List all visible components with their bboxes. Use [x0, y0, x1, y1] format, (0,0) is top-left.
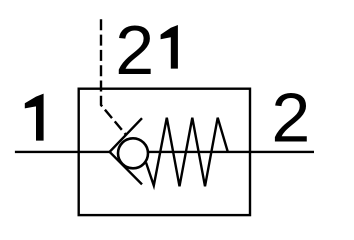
wire: flow line port 1 (left segment to seat apex) [15, 151, 111, 153]
spring [146, 118, 228, 187]
pilot line 21 (dashed) [101, 19, 126, 135]
wire: flow line port 2 (right segment through spring) [130, 151, 314, 153]
label 1 [25, 94, 44, 141]
svg-text:2: 2 [115, 11, 154, 89]
check valve ball [118, 138, 148, 168]
valve seat V [110, 118, 142, 184]
valve body box [79, 89, 250, 215]
svg-text:2: 2 [271, 78, 310, 156]
